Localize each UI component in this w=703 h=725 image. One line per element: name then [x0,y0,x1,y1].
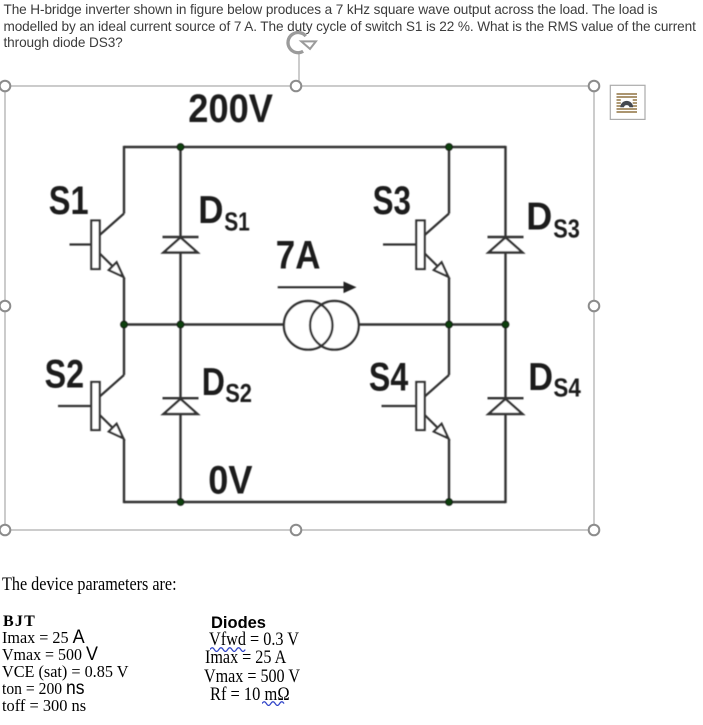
selection border [5,86,594,530]
svg-text:S4: S4 [369,356,409,400]
layout options button [610,85,645,119]
transistor S4 [382,375,450,439]
wire top rail 200V [124,146,506,148]
svg-text:S2: S2 [225,378,252,408]
bottom text: intro [2,575,177,595]
selection handle mid-right [589,301,600,312]
squiggle under m-ohm [262,699,288,706]
wire S3 collector [448,147,450,214]
wire S3 emitter to mid rail [448,278,450,325]
svg-text:7A: 7A [276,233,321,277]
svg-text:200V: 200V [188,87,273,131]
wire DS1 DS2 branch [179,147,181,502]
Diodes column [211,614,266,632]
node junction mid DS3 [502,321,509,328]
current source load 7A [284,301,359,350]
transistor S1 [70,214,125,278]
BJT column [3,613,36,630]
svg-text:S4: S4 [553,373,581,403]
wire S1 emitter to mid rail [123,278,125,325]
svg-text:D: D [198,189,223,232]
transistor S2 [58,375,124,439]
wire S4 collector [448,325,450,376]
label DS3 [526,195,580,243]
node junction mid DS1 [177,321,184,328]
squiggle under Vfwd [210,645,250,652]
diode DS3 [488,237,524,253]
node junction bottom S4 [446,499,453,506]
label DS1 [198,189,250,237]
wire S4 emitter to bottom rail [448,439,450,502]
svg-text:S3: S3 [553,213,580,243]
rotation handle stem [298,54,300,86]
diode DS4 [488,398,524,414]
wire DS3 DS4 branch [504,146,506,503]
label DS2 [202,361,252,408]
wire bottom rail 0V [124,501,506,503]
selection handle bottom-left [0,525,10,536]
node junction mid S3 [446,321,453,328]
svg-text:S1: S1 [224,207,250,237]
current direction arrow [278,282,357,294]
svg-text:D: D [202,361,225,404]
selection handle top-middle [291,81,302,92]
selection handle bottom-right [589,525,600,536]
top paragraph line 3 [4,35,123,51]
wire S1 collector [123,146,125,214]
svg-text:S2: S2 [45,352,84,396]
svg-text:0V: 0V [208,459,252,503]
wire S2 emitter to bottom rail [123,439,125,503]
selection handle bottom-middle [291,525,302,536]
node junction bottom DS2 [177,499,184,506]
top paragraph line 2 [4,19,696,35]
svg-text:D: D [528,356,553,399]
selection handle mid-left [0,301,10,312]
selection handle top-left [0,81,10,92]
label DS4 [528,356,581,402]
node junction top S3 [446,144,453,151]
transistor S3 [383,214,449,278]
wire middle rail load [124,323,506,325]
node junction mid S1 [121,321,128,328]
top paragraph line 1 [4,2,658,18]
rotation handle icon [288,32,316,52]
node junction top DS1 [177,144,184,151]
diode DS1 [163,237,199,253]
selection handle top-right [589,81,600,92]
svg-text:S3: S3 [373,179,411,223]
diode DS2 [163,398,199,414]
svg-text:D: D [526,195,552,238]
wire S2 collector [123,325,125,376]
svg-text:S1: S1 [49,179,89,223]
